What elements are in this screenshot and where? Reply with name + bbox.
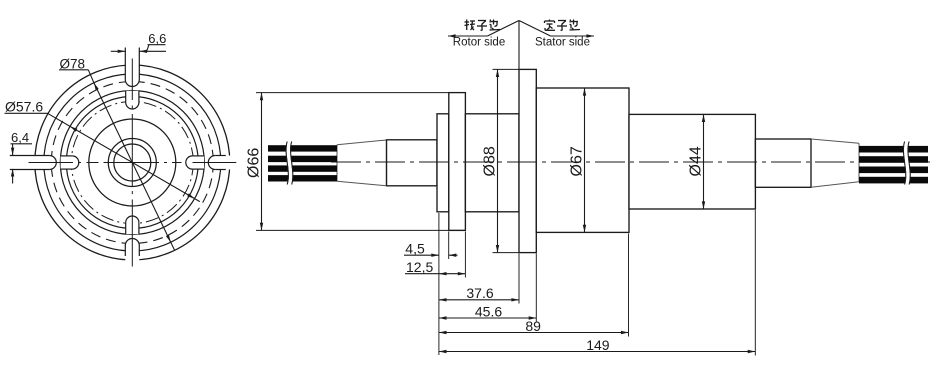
dimension 6,4 left slot xyxy=(11,143,33,145)
step ring xyxy=(437,114,449,212)
left cone wire boot xyxy=(337,140,387,186)
stator flange Ø88 xyxy=(519,69,536,252)
dimension 89 xyxy=(439,332,629,334)
rotor shaft cylinder left xyxy=(387,140,438,186)
svg-text:89: 89 xyxy=(525,318,541,334)
front view circle r43 xyxy=(89,119,176,206)
extension line x628.5 xyxy=(628,234,630,337)
rotor lead wires left xyxy=(268,145,337,151)
slot E deep mask xyxy=(186,156,204,169)
svg-text:12,5: 12,5 xyxy=(406,259,433,275)
slot N wide mask xyxy=(125,48,139,87)
stator body Ø44 xyxy=(629,114,755,209)
svg-text:Ø44: Ø44 xyxy=(688,146,705,176)
front view hub outer circle xyxy=(108,139,156,187)
svg-text:149: 149 xyxy=(586,337,610,353)
stator shaft cylinder right xyxy=(755,139,811,187)
slot S wide mask xyxy=(125,239,139,269)
stator body Ø67 xyxy=(536,88,629,232)
svg-text:Rotor side: Rotor side xyxy=(453,36,505,48)
dimension 45.6 xyxy=(439,317,536,319)
label 转子边 (rotor side CJK) xyxy=(465,21,470,23)
svg-text:Ø67: Ø67 xyxy=(569,146,586,176)
side view horizontal centerline xyxy=(331,161,930,163)
extension line x465.4 xyxy=(464,232,466,278)
front view pitch dash-dot circle xyxy=(71,102,193,224)
slot W wide outline xyxy=(10,155,50,157)
slot W deep outline xyxy=(61,155,73,157)
dimension 4.5 xyxy=(404,254,439,256)
svg-text:Stator side: Stator side xyxy=(535,36,590,48)
svg-text:Ø57.6: Ø57.6 xyxy=(5,99,43,115)
slot S deep outline xyxy=(125,223,127,235)
extension line x439 xyxy=(438,213,440,355)
extension line x519 xyxy=(518,254,520,304)
dimension 37.6 xyxy=(439,299,519,301)
body between flanges xyxy=(465,114,519,212)
extension line x755.3 xyxy=(754,210,756,356)
label 定子边 (stator side CJK) xyxy=(549,20,551,22)
front view vertical centerline xyxy=(131,59,133,101)
slot S deep mask xyxy=(126,216,139,234)
svg-text:45.6: 45.6 xyxy=(475,303,502,319)
extension line x536 xyxy=(535,254,537,322)
slot N deep mask xyxy=(126,91,139,109)
front view second circle xyxy=(44,74,221,251)
rotor flange Ø66 xyxy=(449,93,466,231)
slot N wide outline xyxy=(138,48,140,80)
Ø88 extension lines xyxy=(493,68,520,70)
slot S wide outline xyxy=(124,246,126,257)
dimension Ø44 xyxy=(703,114,705,209)
dimension Ø67 xyxy=(584,88,586,232)
slot E deep outline xyxy=(192,168,204,170)
svg-text:Ø88: Ø88 xyxy=(482,146,499,176)
front view outer circle xyxy=(35,65,230,260)
svg-text:4,5: 4,5 xyxy=(405,241,425,257)
slot E wide mask xyxy=(208,156,238,170)
front view circle r72 xyxy=(60,91,204,235)
right wire break symbol xyxy=(906,142,908,185)
extension line x448.7 xyxy=(448,232,450,260)
svg-text:Ø78: Ø78 xyxy=(60,56,86,71)
front view circle r66 xyxy=(66,97,198,229)
dimension 6,6 top slot xyxy=(111,50,126,52)
dimension Ø88 xyxy=(497,69,499,252)
Ø66 extension lines xyxy=(256,92,449,94)
dimension 149 xyxy=(439,351,755,353)
right cone wire boot xyxy=(811,139,859,187)
svg-text:6,4: 6,4 xyxy=(11,130,29,145)
left wire break symbol xyxy=(288,142,290,185)
front view hub bore circle xyxy=(114,144,151,181)
dimension Ø66 xyxy=(261,93,263,231)
slot E wide outline xyxy=(215,169,226,171)
stator lead wires right xyxy=(859,146,928,153)
slot W wide mask xyxy=(10,156,57,170)
rotor/stator divider symbol xyxy=(518,21,520,70)
svg-text:6,6: 6,6 xyxy=(148,31,166,46)
slot N deep outline xyxy=(138,91,140,103)
dimension 12.5 xyxy=(405,273,465,275)
front view horizontal centerline xyxy=(29,162,74,164)
front view bolt circle dashed xyxy=(51,82,213,244)
slot W deep mask xyxy=(61,156,79,169)
svg-text:Ø66: Ø66 xyxy=(246,148,263,178)
svg-text:37.6: 37.6 xyxy=(466,285,493,301)
